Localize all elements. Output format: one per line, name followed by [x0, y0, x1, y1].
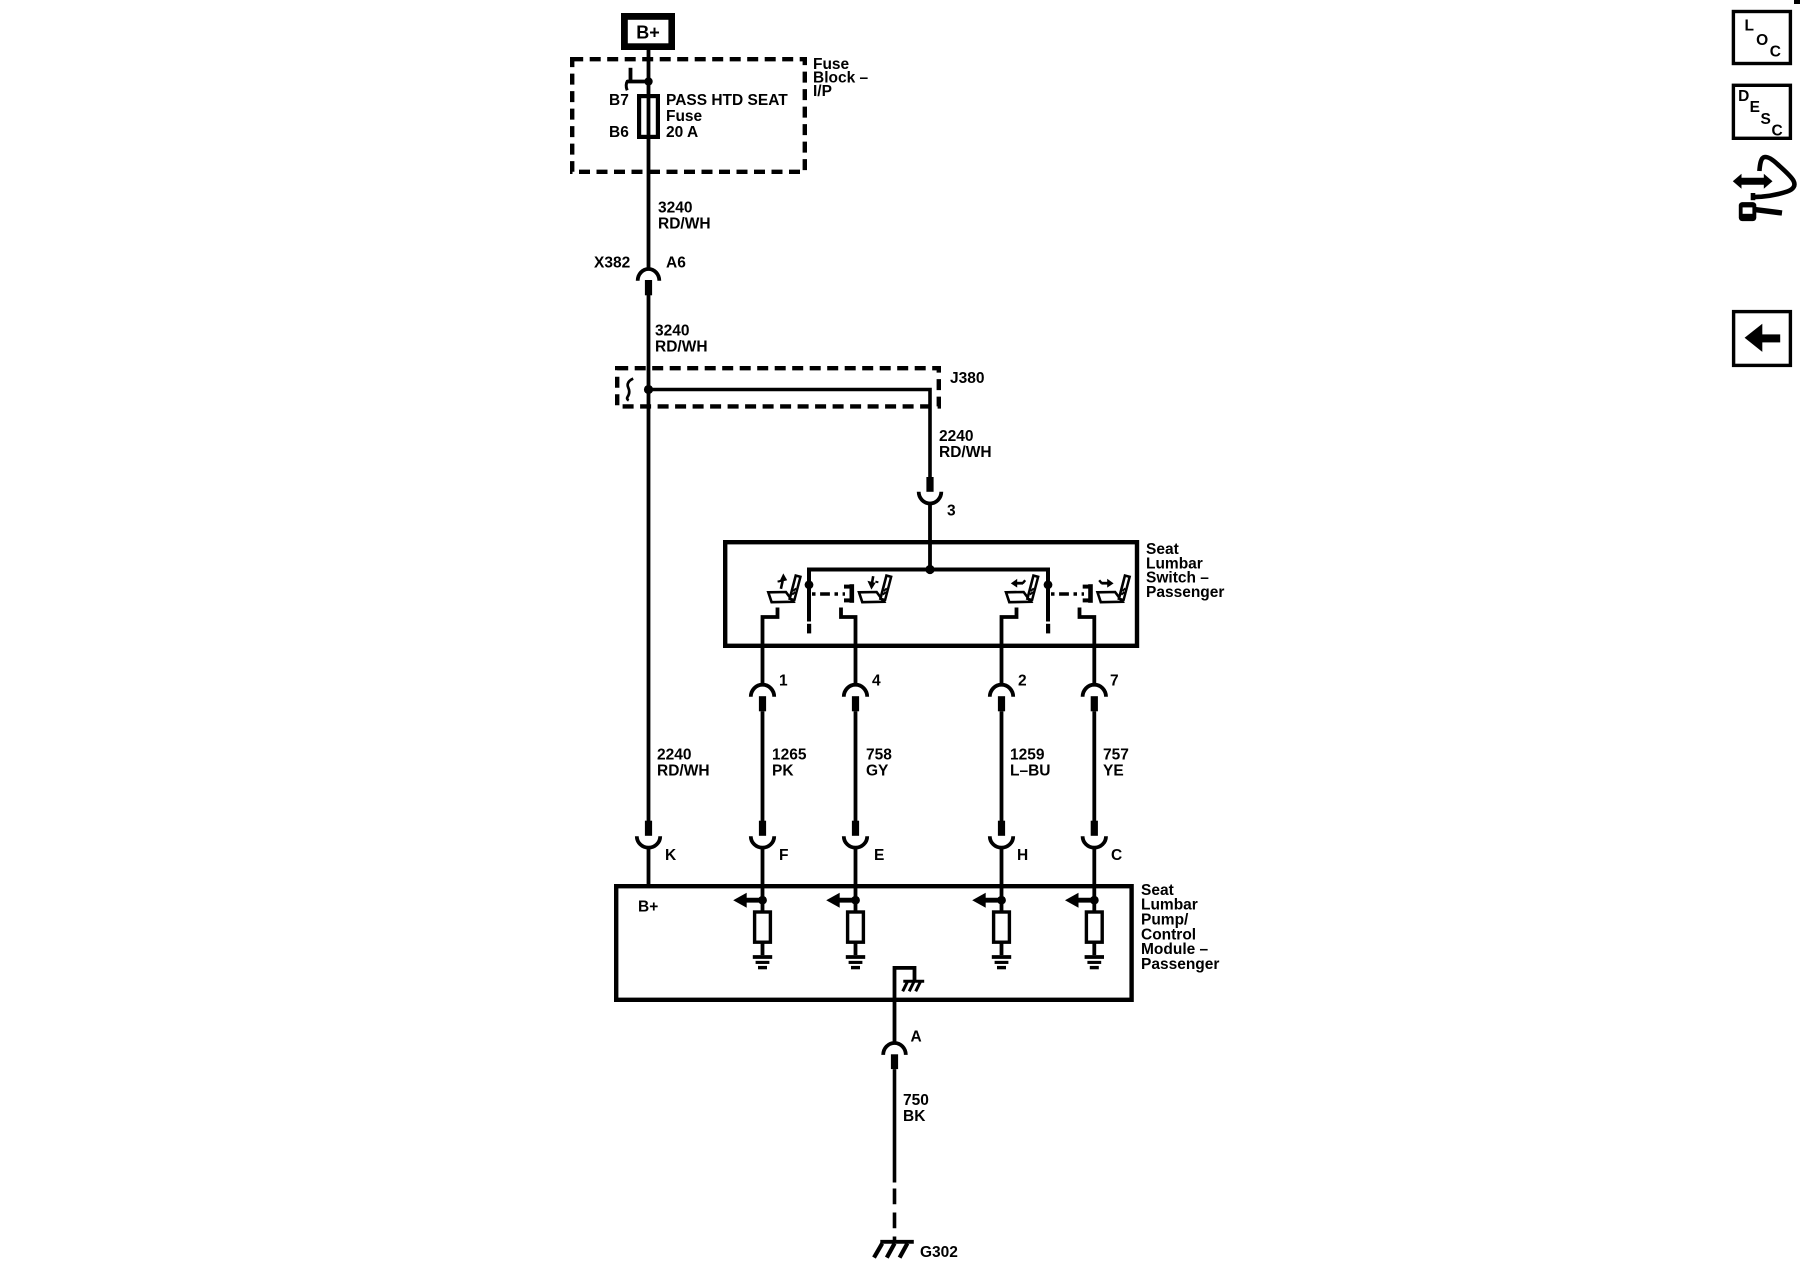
wire pin3 into switch [928, 503, 932, 570]
wire pin H into module [1000, 848, 1004, 885]
svg-text:D: D [1738, 88, 1749, 105]
svg-text:E: E [1750, 99, 1760, 116]
module internal chassis ground [903, 981, 925, 991]
junction dot right contact [1044, 580, 1053, 589]
svg-text:B7: B7 [609, 92, 629, 109]
svg-text:1: 1 [779, 673, 788, 690]
wire B+ to fuse F1 [647, 50, 651, 94]
wire pin4 to module E [854, 711, 858, 821]
svg-text:C: C [1770, 43, 1781, 60]
svg-text:YE: YE [1103, 763, 1124, 780]
left pole bracket [844, 584, 853, 603]
fuse feed tap [626, 68, 648, 91]
svg-text:H: H [1017, 847, 1028, 864]
svg-text:RD/WH: RD/WH [658, 216, 711, 233]
svg-text:758: 758 [866, 747, 892, 764]
module internal ground wire [895, 968, 915, 1000]
Seat Lumbar Switch box [725, 542, 1137, 646]
DESC button [1733, 85, 1790, 138]
seat icon: lumbar forward [1006, 575, 1036, 602]
svg-text:20 A: 20 A [666, 124, 698, 141]
back button [1734, 312, 1791, 366]
splice symbol [627, 379, 633, 401]
wire J380 splice to right [649, 390, 931, 478]
svg-text:Passenger: Passenger [1146, 584, 1224, 601]
svg-text:PK: PK [772, 763, 794, 780]
svg-text:1259: 1259 [1010, 747, 1045, 764]
splice pack J380 dashed box [617, 368, 939, 406]
seat icon: lumbar down [859, 575, 889, 602]
switch output step wire to pin 7 [1080, 608, 1095, 685]
svg-text:J380: J380 [950, 370, 984, 387]
in-line connector X382 pin A6 [638, 269, 660, 281]
wire pin F into module [761, 848, 765, 885]
svg-text:3240: 3240 [658, 200, 692, 217]
svg-text:S: S [1761, 111, 1771, 128]
svg-text:Passenger: Passenger [1141, 956, 1219, 973]
switch output step wire to pin 2 [1002, 608, 1017, 685]
wire X382 to J380 [647, 295, 651, 389]
left arrow [1011, 579, 1025, 588]
gang link right (dashed) [1051, 592, 1084, 595]
wire continues below J380 to module pin K [647, 390, 651, 822]
wire pin7 to module C [1092, 711, 1096, 821]
wire pin1 to module F [761, 711, 765, 821]
junction bus/feed [925, 565, 934, 574]
wire pin E into module [854, 848, 858, 885]
right contact fixed tick [1046, 624, 1050, 634]
ground G302 [874, 1242, 914, 1258]
switch output step wire to pin 1 [763, 608, 778, 685]
svg-text:G302: G302 [920, 1244, 958, 1261]
svg-text:1265: 1265 [772, 747, 807, 764]
wire pin K into module [647, 848, 651, 885]
seat icon: lumbar up [768, 575, 798, 602]
Fuse Block - I/P dashed box [572, 59, 805, 172]
svg-text:L–BU: L–BU [1010, 763, 1050, 780]
svg-text:A: A [911, 1028, 922, 1045]
connector pin 2 [990, 685, 1013, 697]
svg-text:RD/WH: RD/WH [657, 763, 710, 780]
wire module to connector A [893, 1000, 897, 1043]
LOC button [1733, 12, 1790, 64]
connector pin 4 [844, 685, 867, 697]
right arrow [1099, 579, 1113, 588]
connector pin K [645, 821, 652, 836]
harness routing icon: harness end step [1751, 193, 1756, 200]
svg-text:B+: B+ [638, 899, 658, 916]
svg-text:3: 3 [947, 503, 956, 520]
up arrow [778, 573, 788, 588]
svg-text:PASS HTD SEAT: PASS HTD SEAT [666, 92, 788, 109]
svg-text:BK: BK [903, 1108, 926, 1125]
switch output step wire to pin 4 [841, 608, 856, 685]
svg-text:O: O [1756, 32, 1768, 49]
junction dot left contact [805, 580, 814, 589]
motor driver channel H [972, 884, 1011, 968]
wire 750 BK [893, 1069, 897, 1182]
svg-text:4: 4 [872, 673, 881, 690]
connector pin 1 [751, 685, 774, 697]
right pole bracket [1083, 584, 1092, 603]
connector pin 3 of switch [926, 477, 933, 492]
Seat Lumbar Pump/Control Module box [616, 886, 1131, 1000]
svg-text:C: C [1772, 123, 1783, 140]
switch common bus with contact arms [809, 570, 1048, 622]
wire pin C into module [1092, 848, 1096, 885]
svg-text:2: 2 [1018, 673, 1027, 690]
svg-text:I/P: I/P [813, 83, 832, 100]
splice junction [644, 385, 653, 394]
page corner mark [1794, 0, 1800, 4]
motor driver channel E [826, 884, 865, 968]
harness routing icon: double arrow [1733, 174, 1773, 189]
harness routing icon: harness curve [1753, 157, 1794, 197]
connector pin H [998, 821, 1005, 836]
down arrow [867, 576, 878, 589]
svg-text:2240: 2240 [657, 747, 691, 764]
svg-text:A6: A6 [666, 254, 686, 271]
svg-text:L: L [1745, 18, 1754, 35]
svg-text:GY: GY [866, 763, 889, 780]
motor driver channel F [733, 884, 772, 968]
connector pin A [883, 1043, 906, 1055]
harness routing icon: wrench [1739, 202, 1782, 221]
svg-text:X382: X382 [594, 254, 630, 271]
motor driver channel C [1065, 884, 1104, 968]
svg-text:Fuse: Fuse [666, 108, 703, 125]
wire through fuse [647, 94, 651, 268]
B+ power feed box [621, 13, 675, 50]
svg-text:750: 750 [903, 1092, 929, 1109]
svg-text:B+: B+ [636, 22, 660, 42]
svg-text:7: 7 [1110, 673, 1119, 690]
wire pin2 to module H [1000, 711, 1004, 821]
svg-text:K: K [665, 847, 677, 864]
svg-text:C: C [1111, 847, 1122, 864]
svg-text:RD/WH: RD/WH [939, 444, 992, 461]
dashed wire to ground [893, 1189, 897, 1242]
svg-text:F: F [779, 847, 788, 864]
left contact fixed tick [807, 624, 811, 634]
svg-text:3240: 3240 [655, 322, 689, 339]
seat icon: lumbar rearward [1098, 575, 1128, 602]
svg-text:B6: B6 [609, 124, 629, 141]
connector pin F [759, 821, 766, 836]
connector pin 7 [1083, 685, 1106, 697]
gang link left (dashed) [812, 592, 845, 595]
svg-text:757: 757 [1103, 747, 1129, 764]
fuse F1 PASS HTD SEAT 20A [639, 96, 658, 137]
back arrow [1745, 324, 1763, 352]
connector pin E [852, 821, 859, 836]
junction at fuse tap [644, 77, 652, 85]
svg-text:E: E [874, 847, 884, 864]
svg-text:2240: 2240 [939, 428, 973, 445]
connector pin C [1091, 821, 1098, 836]
svg-text:RD/WH: RD/WH [655, 338, 708, 355]
